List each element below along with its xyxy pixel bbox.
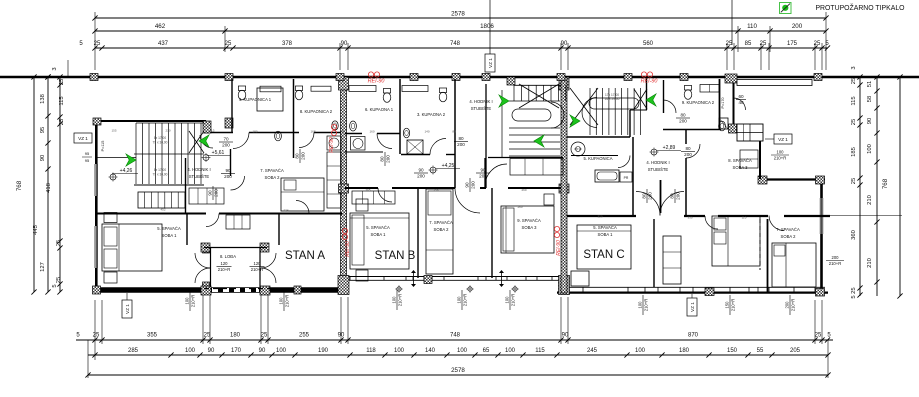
washer B — [351, 137, 366, 151]
svg-text:90: 90 — [259, 348, 266, 354]
svg-text:200: 200 — [457, 142, 465, 147]
closet B soba1 — [352, 191, 395, 204]
svg-text:190: 190 — [318, 348, 329, 354]
svg-text:60: 60 — [738, 94, 744, 99]
svg-text:VZ 1: VZ 1 — [488, 58, 493, 68]
shower B — [407, 140, 423, 154]
door arc B kup1 — [377, 134, 392, 149]
vfrac 100/210 3 — [391, 290, 402, 310]
door arc B mid1 — [378, 188, 392, 202]
wall A loggia right post — [278, 214, 280, 246]
elev circle B3 — [513, 287, 517, 291]
svg-text:200: 200 — [386, 155, 391, 163]
svg-text:115: 115 — [851, 96, 857, 105]
left label 3 top — [67, 60, 69, 77]
stairs C right wall — [646, 77, 648, 110]
svg-text:160: 160 — [369, 130, 374, 134]
VZ1 label NE — [774, 134, 792, 144]
wall A mid — [95, 213, 206, 215]
vfrac 80/200 A — [294, 149, 305, 163]
svg-text:SOBA 1: SOBA 1 — [598, 232, 614, 237]
door arc A kup2 — [299, 133, 314, 148]
VZ shaft pier — [729, 124, 737, 133]
svg-text:170: 170 — [231, 348, 242, 354]
vfrac 200/210 — [784, 295, 795, 315]
svg-text:210+R: 210+R — [511, 294, 516, 306]
svg-text:200: 200 — [832, 255, 840, 260]
divider A/B blocks — [339, 77, 349, 90]
svg-text:200: 200 — [679, 119, 687, 124]
svg-text:462: 462 — [155, 23, 166, 30]
wall C kup right — [719, 79, 721, 130]
svg-text:378: 378 — [282, 41, 293, 47]
bed A soba1 — [102, 224, 162, 271]
VZ1 label A bottom — [122, 300, 132, 318]
svg-text:65: 65 — [483, 348, 490, 354]
wc C kup2 — [684, 86, 691, 91]
svg-text:STUBIŠTE: STUBIŠTE — [471, 106, 492, 111]
wc A kup1 — [238, 86, 245, 91]
loggia open edge dashed — [204, 288, 270, 290]
dimension row B2 — [88, 354, 828, 356]
svg-text:80: 80 — [294, 153, 299, 159]
svg-text:REI-90: REI-90 — [345, 241, 351, 257]
svg-text:6. KUPAONA 1: 6. KUPAONA 1 — [365, 107, 394, 112]
svg-text:200: 200 — [676, 192, 681, 200]
svg-text:9. SPAVAĆA: 9. SPAVAĆA — [517, 218, 541, 223]
svg-text:16 x 29,00: 16 x 29,00 — [605, 97, 620, 101]
wall B kup2 bottom2 — [401, 154, 430, 156]
svg-text:95: 95 — [40, 127, 46, 133]
svg-text:320: 320 — [597, 215, 602, 219]
svg-text:140: 140 — [425, 348, 436, 354]
wall C stairs bottom — [567, 136, 630, 138]
pier stairs B top — [507, 77, 515, 85]
wall A bath band bottom — [204, 132, 233, 134]
svg-text:REI-90: REI-90 — [556, 240, 562, 256]
vfrac 90/200 B — [464, 178, 475, 192]
svg-text:25: 25 — [93, 333, 100, 339]
svg-text:200: 200 — [784, 301, 789, 309]
svg-text:STAN B: STAN B — [375, 250, 416, 262]
bed C soba2 — [772, 243, 816, 287]
svg-text:55: 55 — [757, 348, 764, 354]
svg-text:5. SPAVAĆA: 5. SPAVAĆA — [157, 226, 181, 231]
wardrobe A hall — [189, 188, 224, 204]
sink A kup2 — [332, 121, 338, 130]
right dim column inner — [859, 77, 861, 296]
svg-text:155: 155 — [111, 129, 116, 133]
svg-text:80: 80 — [641, 193, 646, 199]
svg-text:210+R: 210+R — [191, 295, 196, 307]
svg-text:STUBIŠTE: STUBIŠTE — [648, 167, 669, 172]
right section top wall — [758, 178, 825, 180]
elev circle B1 — [397, 287, 401, 291]
svg-text:2578: 2578 — [451, 11, 465, 18]
svg-text:8. LOĐA: 8. LOĐA — [220, 254, 236, 259]
bathtub C — [595, 170, 619, 182]
svg-text:210+R: 210+R — [791, 299, 796, 311]
svg-text:200: 200 — [214, 189, 219, 197]
svg-text:STAN A: STAN A — [285, 250, 325, 262]
svg-text:100: 100 — [504, 296, 509, 304]
svg-text:90: 90 — [338, 333, 345, 339]
svg-text:768: 768 — [882, 178, 889, 189]
svg-text:REI-90: REI-90 — [329, 137, 335, 153]
svg-text:STUBIŠTE: STUBIŠTE — [189, 174, 210, 179]
svg-text:452: 452 — [160, 208, 165, 212]
door arc B mid2 — [455, 188, 480, 213]
vfrac 80/200 Cb — [669, 189, 680, 203]
door arc C entry R — [660, 192, 684, 216]
door arc A kup1 — [233, 133, 249, 149]
pier top 4 — [452, 74, 460, 81]
wall B kup1 bottom — [345, 133, 362, 135]
washer A — [327, 136, 341, 150]
svg-text:SOBA 2: SOBA 2 — [781, 234, 797, 239]
svg-text:200: 200 — [479, 174, 487, 179]
svg-text:VZ 1: VZ 1 — [778, 137, 788, 142]
svg-text:80: 80 — [669, 193, 674, 199]
svg-text:90: 90 — [40, 155, 46, 161]
door arc C bath — [618, 156, 630, 168]
svg-text:80: 80 — [685, 146, 691, 151]
red REI-90 bot AB — [342, 228, 347, 233]
wc B kup1 — [383, 89, 390, 94]
svg-text:168: 168 — [310, 130, 315, 134]
pier right top wall left end — [758, 176, 767, 184]
NE wall vertical 2 — [759, 141, 761, 179]
svg-text:5. SPAVAĆA: 5. SPAVAĆA — [366, 225, 390, 230]
svg-text:100: 100 — [456, 296, 461, 304]
svg-text:VZ 1: VZ 1 — [690, 302, 695, 312]
svg-text:127: 127 — [40, 262, 46, 272]
svg-text:25: 25 — [59, 79, 65, 85]
left dim column 768 — [33, 77, 35, 292]
window rect B kup1 — [349, 86, 376, 92]
bed A soba2 — [281, 178, 324, 211]
svg-text:79 x 30,00: 79 x 30,00 — [153, 141, 168, 145]
green arrow B1 — [499, 95, 509, 107]
door arc A loggia double L — [195, 253, 210, 268]
svg-text:25: 25 — [56, 277, 62, 283]
svg-text:STAN C: STAN C — [583, 249, 624, 261]
right extension line y215 — [830, 215, 902, 217]
svg-text:265: 265 — [365, 188, 370, 192]
stairs B landing wall — [485, 84, 487, 188]
door arc C entry L — [636, 192, 660, 216]
NE wall vertical — [733, 83, 735, 125]
right dim column 768 — [899, 77, 901, 296]
bedside A top — [104, 213, 117, 223]
vfrac 150/210 — [724, 295, 735, 315]
left outer wall — [95, 121, 98, 290]
window rect A kup1 — [257, 88, 283, 111]
wall B bedroom division 2 — [491, 188, 493, 278]
svg-text:REI-90: REI-90 — [641, 79, 658, 85]
svg-text:90: 90 — [418, 167, 424, 172]
svg-text:80: 80 — [680, 112, 686, 117]
wall C hodnik right — [685, 130, 687, 145]
svg-text:748: 748 — [450, 333, 461, 339]
svg-text:25: 25 — [851, 78, 857, 84]
svg-text:200: 200 — [648, 192, 653, 200]
svg-text:100: 100 — [185, 348, 196, 354]
svg-text:95: 95 — [85, 158, 90, 163]
svg-text:150: 150 — [724, 301, 729, 309]
wall C kupaonica top — [571, 155, 618, 157]
svg-text:90: 90 — [341, 41, 348, 47]
stairs A treads — [135, 123, 137, 184]
svg-text:100: 100 — [278, 297, 283, 305]
wall B bedroom division 1 — [417, 188, 419, 278]
svg-text:80: 80 — [458, 136, 464, 141]
svg-text:748: 748 — [450, 41, 461, 47]
wall C kup bottom — [663, 129, 721, 131]
svg-text:100: 100 — [635, 348, 646, 354]
dimension row B1 — [76, 339, 833, 341]
svg-text:25: 25 — [59, 119, 65, 125]
wall under stairs B — [488, 157, 563, 159]
svg-text:100: 100 — [637, 301, 642, 309]
svg-text:210: 210 — [165, 129, 170, 133]
svg-text:200: 200 — [222, 143, 230, 148]
svg-text:SOBA 3: SOBA 3 — [733, 165, 749, 170]
door arc A loggia double R — [261, 253, 276, 268]
svg-text:768: 768 — [16, 180, 23, 191]
svg-text:355: 355 — [147, 333, 158, 339]
pier bottom A left — [93, 286, 101, 294]
svg-text:185: 185 — [851, 147, 857, 157]
VZ shaft box — [737, 124, 763, 141]
bed B soba1 — [350, 213, 409, 269]
svg-text:4. KUPAONICA 1: 4. KUPAONICA 1 — [239, 97, 272, 102]
door swing B1 — [413, 272, 415, 285]
svg-text:1806: 1806 — [480, 23, 494, 30]
svg-text:3: 3 — [52, 67, 58, 70]
svg-text:+4,26: +4,26 — [120, 168, 133, 174]
svg-text:3. KUPAONA 2: 3. KUPAONA 2 — [417, 112, 446, 117]
bedside A bottom — [104, 272, 117, 283]
svg-text:210+R: 210+R — [644, 299, 649, 311]
red REI-90 mid AB — [331, 124, 336, 129]
svg-text:PR: PR — [624, 176, 629, 180]
svg-text:138: 138 — [40, 94, 46, 104]
red REI-90 top AB — [368, 72, 373, 77]
svg-text:200: 200 — [471, 181, 476, 189]
svg-text:+5,61: +5,61 — [212, 150, 225, 156]
svg-text:25: 25 — [851, 178, 857, 184]
svg-text:58: 58 — [867, 96, 873, 102]
svg-text:SOBA 1: SOBA 1 — [162, 233, 178, 238]
vfrac 100/210 4 — [456, 290, 467, 310]
shelf NE room — [740, 150, 758, 168]
wall A loggia left post — [186, 214, 188, 246]
wall C kup left — [663, 80, 665, 113]
svg-text:200: 200 — [417, 174, 425, 179]
closet C column — [663, 236, 681, 284]
green arrow A1 — [126, 154, 136, 166]
svg-text:90: 90 — [207, 190, 212, 196]
svg-text:51: 51 — [867, 81, 873, 87]
svg-text:210: 210 — [867, 258, 873, 268]
svg-text:25: 25 — [815, 333, 822, 339]
door arc A hall2 — [231, 176, 245, 190]
door arc C kup — [663, 100, 676, 113]
door arc A soba2 — [296, 201, 309, 214]
loggia piers — [201, 243, 210, 252]
svg-text:90: 90 — [480, 167, 486, 172]
wall C mid — [567, 215, 636, 217]
PR box C — [620, 172, 632, 182]
green arrow C2 — [646, 94, 656, 106]
svg-text:180: 180 — [679, 348, 690, 354]
svg-text:40: 40 — [738, 100, 744, 105]
wall B mid — [345, 187, 378, 189]
door arc B kup2 — [430, 139, 446, 155]
svg-text:210+R: 210+R — [731, 299, 736, 311]
wall C soba1 right — [653, 219, 655, 287]
pier bottom C right — [816, 289, 825, 297]
svg-text:3: 3 — [851, 66, 857, 69]
stan B bottom wall glazing — [349, 276, 561, 278]
svg-text:PROTUPOŽARNO TIPKALO: PROTUPOŽARNO TIPKALO — [815, 3, 905, 12]
VZ1 label top — [485, 54, 495, 72]
svg-text:205: 205 — [790, 348, 801, 354]
svg-text:4. HODNIK I: 4. HODNIK I — [646, 160, 669, 165]
svg-text:113: 113 — [210, 129, 215, 133]
door arc C mid room — [705, 216, 718, 229]
svg-text:260: 260 — [521, 188, 526, 192]
svg-text:90: 90 — [464, 182, 469, 188]
svg-text:90: 90 — [225, 168, 231, 173]
stairs A flight 2 — [138, 192, 185, 208]
svg-text:5. SPAVAĆA: 5. SPAVAĆA — [593, 225, 617, 230]
svg-text:360: 360 — [851, 230, 857, 240]
stairs B treads — [513, 85, 515, 101]
door arc A stairs — [200, 135, 213, 148]
svg-text:200: 200 — [792, 23, 803, 30]
vfrac 90/200 A — [207, 186, 218, 200]
wall C door post — [660, 180, 662, 213]
svg-text:210+R: 210+R — [398, 294, 403, 306]
svg-text:200: 200 — [301, 152, 306, 160]
svg-text:P=115: P=115 — [101, 141, 105, 152]
washer C — [571, 142, 585, 156]
svg-text:100: 100 — [391, 296, 396, 304]
svg-text:180: 180 — [252, 130, 257, 134]
wall A stairs bottom — [134, 184, 204, 186]
svg-text:100: 100 — [777, 149, 785, 154]
svg-text:4. HODNIK I: 4. HODNIK I — [469, 99, 492, 104]
pier left recess — [93, 118, 101, 125]
svg-text:285: 285 — [128, 348, 139, 354]
left dim column mid — [47, 77, 49, 292]
pier top 1 — [225, 74, 233, 81]
stan A bottom wall — [95, 287, 342, 292]
svg-text:SOBA 1: SOBA 1 — [371, 232, 387, 237]
svg-text:P=170: P=170 — [721, 97, 725, 108]
shelf C kup2 — [700, 85, 719, 93]
pier top 0 — [90, 74, 98, 81]
svg-text:100: 100 — [505, 348, 516, 354]
svg-text:118: 118 — [366, 348, 376, 354]
svg-text:VZ 1: VZ 1 — [125, 304, 130, 314]
svg-text:8. SPAVAĆA: 8. SPAVAĆA — [728, 158, 752, 163]
svg-text:7. SPAVAĆA: 7. SPAVAĆA — [429, 220, 453, 225]
svg-text:9. KUPAONICA 2: 9. KUPAONICA 2 — [682, 100, 715, 105]
pier B bottom mid — [424, 276, 432, 284]
pier right wall top — [816, 176, 825, 184]
divider wall B/C — [561, 77, 567, 293]
dimension row T3 — [95, 47, 828, 49]
vfrac 100/210 6 — [637, 295, 648, 315]
svg-text:330: 330 — [687, 216, 692, 220]
pier top 7 — [624, 74, 632, 81]
svg-text:85: 85 — [745, 41, 752, 47]
pier top 3 — [410, 74, 418, 81]
green arrow C1 — [570, 115, 580, 127]
svg-text:79 x 30,00: 79 x 30,00 — [153, 173, 168, 177]
leader line VZ1 top — [489, 0, 491, 56]
stan C bottom wall glazing — [567, 286, 825, 288]
red REI-90 bot BC — [554, 226, 559, 231]
pier top 6 — [557, 74, 565, 81]
green arrow B2 — [534, 135, 544, 147]
divider wall A/B — [341, 77, 347, 293]
window sill left A — [97, 157, 136, 159]
svg-text:200: 200 — [224, 174, 232, 179]
vfrac 100/210 1 — [184, 291, 195, 311]
legend icon protupozarno tipkalo — [780, 3, 792, 14]
svg-text:110: 110 — [742, 216, 747, 220]
svg-text:100: 100 — [867, 144, 873, 154]
dimension row T1 total 2578 — [95, 17, 826, 19]
svg-text:5. KUPAONICA: 5. KUPAONICA — [583, 156, 612, 161]
svg-text:8. KUPAONICA 2: 8. KUPAONICA 2 — [300, 109, 333, 114]
wardrobe A soba1 — [226, 215, 250, 229]
svg-text:210+R: 210+R — [218, 267, 230, 272]
door box C soba1 — [571, 271, 589, 286]
divider B/C blocks — [559, 77, 569, 90]
wall A hall vert — [185, 158, 187, 213]
svg-text:SOBA 3: SOBA 3 — [522, 225, 538, 230]
wc A kup2 — [295, 86, 302, 91]
svg-text:4. HODNIK I: 4. HODNIK I — [187, 167, 210, 172]
wall C bedroom division — [767, 219, 769, 292]
svg-text:70: 70 — [223, 136, 229, 141]
VZ1 label C bottom — [687, 298, 697, 316]
svg-text:100: 100 — [394, 348, 405, 354]
wall A hall left — [230, 149, 232, 176]
pier top 8 — [680, 74, 688, 81]
door arc A hall — [206, 214, 219, 227]
dimension row B3 total 2578 — [88, 374, 828, 376]
bed C soba1 — [577, 225, 631, 269]
sink B kup1 — [350, 121, 357, 131]
vfrac 100/210 2 — [278, 291, 289, 311]
svg-text:5 25: 5 25 — [851, 287, 857, 298]
svg-text:260: 260 — [517, 205, 522, 209]
dimension row T2 — [95, 30, 826, 32]
right dim column mid — [876, 77, 878, 296]
left recess top wall — [95, 120, 206, 122]
svg-text:445: 445 — [33, 225, 39, 235]
svg-text:210+R: 210+R — [774, 156, 786, 161]
svg-text:560: 560 — [643, 41, 654, 47]
sink C kup2 — [719, 121, 726, 131]
vfrac 100/210 5 — [504, 290, 515, 310]
